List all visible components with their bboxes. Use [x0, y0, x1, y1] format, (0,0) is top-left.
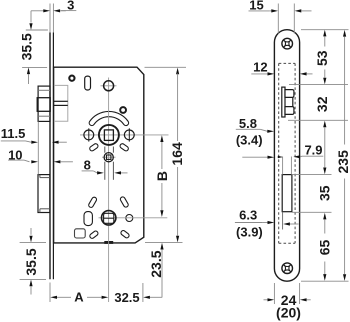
WC rosette oval 1-2h — [120, 196, 129, 208]
extension line slot top right — [292, 173, 332, 175]
svg-text:35.5: 35.5 — [23, 248, 39, 275]
svg-text:35.5: 35.5 — [19, 33, 35, 60]
hub lower oval left — [89, 143, 99, 152]
dimension 53 — [314, 30, 330, 85]
dimension 35.5 top — [19, 11, 48, 84]
dimension 65 — [316, 213, 332, 281]
svg-text:A: A — [74, 290, 84, 305]
guide ring — [120, 107, 126, 113]
slot cutout — [85, 76, 91, 90]
extension line case right edge bottom — [142, 283, 144, 302]
spindle stem — [105, 147, 114, 180]
extension line plate top right — [301, 29, 349, 31]
handle follower hub — [99, 125, 119, 145]
hub lower oval right — [119, 143, 129, 152]
dimension 35.5 bottom — [20, 228, 46, 295]
WC follower hub — [102, 211, 116, 225]
faceplate side view (back line) — [52, 33, 54, 280]
svg-text:(3.9): (3.9) — [236, 225, 263, 240]
dimension 8 — [82, 157, 128, 174]
hub side hole right — [124, 128, 134, 141]
svg-text:23.5: 23.5 — [148, 250, 164, 277]
dimension 15 — [249, 0, 312, 13]
hidden lock case (dashed) — [279, 63, 295, 243]
svg-text:53: 53 — [314, 50, 330, 66]
dimension 6.3 (3.9) — [235, 208, 299, 240]
extension line latch front — [37, 122, 39, 175]
dimension 164 — [145, 67, 187, 242]
WC rosette stadium 9h — [84, 212, 92, 226]
extension line plate bottom right — [301, 280, 349, 282]
faceplate top extension lines — [49, 4, 51, 33]
dimension 32.5 — [109, 290, 162, 305]
extension line latch top — [289, 83, 348, 85]
lock case outline — [54, 67, 144, 243]
svg-text:8: 8 — [84, 157, 91, 172]
dimension 10 — [8, 148, 73, 164]
svg-text:65: 65 — [316, 240, 332, 256]
WC rosette square 8h — [75, 229, 86, 238]
centerline WC hub horizontal — [99, 217, 168, 219]
WC rosette circle 3h — [126, 215, 133, 222]
svg-text:5.8: 5.8 — [239, 116, 257, 131]
svg-text:(3.4): (3.4) — [236, 132, 263, 147]
faceplate front view (stadium outline) — [274, 30, 299, 282]
svg-text:7.9: 7.9 — [304, 143, 322, 158]
slot extension lines up — [282, 157, 284, 175]
top crosshair hole — [101, 85, 117, 87]
dimension 12 — [251, 59, 312, 75]
dimension 32 — [314, 96, 330, 174]
centerline vertical — [108, 78, 110, 303]
deadbolt slot — [282, 175, 292, 212]
dimension 235 — [335, 30, 350, 281]
latch bolt head — [37, 86, 50, 121]
slot extension line down — [282, 212, 284, 230]
latch bolt tail block — [54, 85, 68, 121]
dimension 11.5 — [1, 126, 67, 144]
extension line slot bottom right — [292, 211, 332, 213]
WC rosette oval 10-11h — [88, 196, 97, 208]
WC rosette oval 4-5h — [120, 230, 130, 239]
rivet — [69, 76, 74, 81]
WC rosette oval 7-8h — [89, 230, 99, 239]
15 extension lines — [277, 4, 279, 34]
dimension 24 (20) — [264, 283, 311, 321]
svg-text:6.3: 6.3 — [239, 208, 257, 223]
spindle stem circle — [102, 156, 116, 158]
centerline hub horizontal — [80, 134, 169, 136]
svg-text:12: 12 — [253, 59, 267, 74]
deadbolt — [38, 175, 50, 213]
hub side hole left — [84, 128, 94, 141]
svg-text:11.5: 11.5 — [1, 126, 26, 141]
svg-text:B: B — [154, 171, 170, 181]
dimension 23.5 — [148, 243, 164, 298]
top screw — [282, 38, 293, 49]
dimension B — [154, 135, 170, 217]
svg-text:32: 32 — [314, 96, 330, 112]
svg-text:235: 235 — [335, 150, 350, 174]
dimension A — [50, 283, 108, 305]
dimension 7.9 — [277, 143, 323, 159]
latch bolt front view — [282, 87, 294, 117]
case bottom tab — [104, 241, 113, 244]
spring arc band — [89, 111, 128, 125]
bottom screw — [282, 263, 293, 274]
dimension 5.8 (3.4) — [236, 116, 274, 159]
svg-text:(20): (20) — [276, 305, 301, 321]
svg-text:164: 164 — [169, 142, 185, 166]
svg-text:32.5: 32.5 — [114, 290, 139, 305]
extension line latch bottom — [288, 119, 348, 121]
faceplate side view (front line) — [49, 33, 51, 280]
svg-text:35: 35 — [317, 185, 333, 201]
dimension 3 — [31, 0, 76, 13]
